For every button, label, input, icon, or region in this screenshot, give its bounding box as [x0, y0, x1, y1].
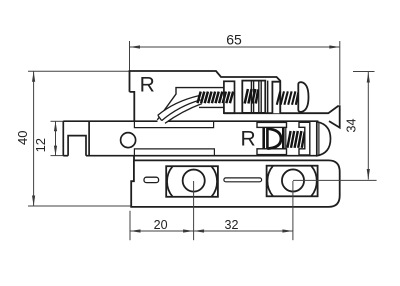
dimension 34 line [353, 72, 375, 180]
middle pocket top flange [257, 122, 287, 127]
leader from left circle down [193, 181, 195, 240]
svg-text:40: 40 [15, 131, 30, 145]
svg-text:32: 32 [225, 218, 239, 232]
spring end bracket [299, 122, 310, 155]
dimension 65 arrowheads [130, 45, 340, 48]
striped guide block [242, 81, 265, 113]
middle bar bottom edge [63, 155, 317, 157]
middle pocket bottom flange [257, 149, 287, 155]
middle bar bottom recess [134, 149, 214, 156]
svg-text:65: 65 [226, 32, 242, 48]
screw B thread [277, 91, 298, 104]
right slider block [267, 166, 318, 197]
dimension 12 arrowheads [54, 121, 57, 155]
keeper dome inner edge [318, 122, 320, 156]
pocket right thin wall [285, 127, 287, 148]
middle bar hole [121, 133, 136, 148]
screw B flange [272, 82, 280, 114]
ribbon arcs (flexible screw end) [158, 96, 202, 124]
svg-text:34: 34 [344, 119, 358, 133]
top body outline [130, 71, 281, 121]
right end tab [329, 105, 340, 127]
svg-text:12: 12 [33, 138, 48, 152]
thread inside guide block [245, 89, 259, 104]
body cavity [157, 88, 224, 120]
left slider circle [183, 170, 205, 192]
middle bar top recess [134, 121, 213, 127]
keeper dome [317, 122, 331, 156]
leader from right circle to 34 dimension [293, 179, 377, 181]
screw A thread [198, 92, 234, 104]
screw B dome head [298, 82, 308, 112]
right slider circle [282, 169, 304, 191]
top body bottom ledge [224, 106, 339, 114]
svg-text:20: 20 [154, 218, 168, 232]
leader from right circle down [292, 181, 294, 240]
middle bar top edge [63, 120, 318, 122]
left slider block [166, 166, 218, 197]
svg-text:R: R [140, 73, 155, 96]
dimension 65 line [130, 41, 340, 105]
screw A head flange [224, 81, 235, 113]
pocket inner bar [264, 127, 268, 148]
pocket right wall [282, 127, 285, 148]
middle spring [287, 131, 304, 148]
svg-text:R: R [241, 128, 256, 151]
dimension 34 arrowheads [367, 72, 370, 180]
dimension 12 line [51, 121, 65, 155]
bottom plate outline [131, 156, 340, 207]
middle bar left end channel [63, 121, 89, 156]
plate small slot [144, 177, 159, 182]
plate long slot [224, 178, 262, 182]
ribbon white mask [158, 96, 202, 121]
dimension 40 line [28, 71, 132, 206]
dimension 20-32 chain line [130, 211, 293, 241]
dimension 20-32 arrowheads [130, 229, 293, 232]
pocket D bowl [267, 129, 281, 149]
dimension 40 arrowheads [32, 71, 35, 206]
